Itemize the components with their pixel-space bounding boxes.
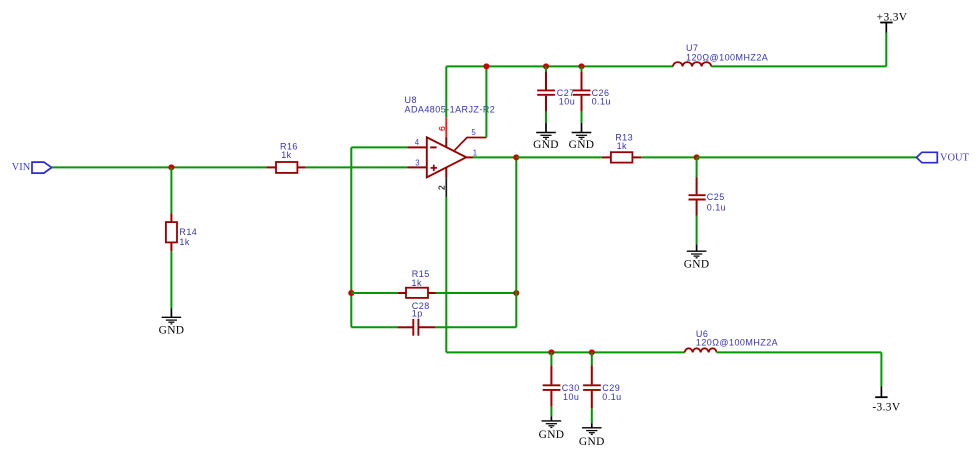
wire output junction to R13 xyxy=(516,156,602,158)
capacitor C26 xyxy=(573,66,591,123)
wire pin 5 to top rail xyxy=(485,66,487,137)
svg-text:0.1u: 0.1u xyxy=(602,392,621,402)
wire pin 6 from top rail xyxy=(445,66,447,117)
power symbol -3.3V xyxy=(875,386,887,397)
pin 1 stub xyxy=(466,156,473,158)
top supply rail wire (right) xyxy=(711,65,886,67)
svg-text:120Ω@100MHZ2A: 120Ω@100MHZ2A xyxy=(696,337,778,347)
svg-text:VIN: VIN xyxy=(12,162,31,173)
capacitor C27 xyxy=(537,66,555,123)
svg-text:4: 4 xyxy=(415,138,420,147)
junction dot R15 right xyxy=(513,290,519,296)
ground symbol (C27) xyxy=(536,123,556,139)
svg-text:GND: GND xyxy=(569,139,595,151)
resistor R14 xyxy=(166,213,177,251)
pin 5 stub xyxy=(455,138,487,151)
wire C28 right xyxy=(435,326,516,328)
svg-text:GND: GND xyxy=(684,259,710,271)
wire node A down to R14 xyxy=(170,167,172,213)
svg-text:0.1u: 0.1u xyxy=(592,97,611,107)
ground symbol (C30) xyxy=(542,416,562,427)
pin 2 stub (black) xyxy=(445,177,447,197)
svg-text:120Ω@100MHZ2A: 120Ω@100MHZ2A xyxy=(686,52,768,62)
capacitor C28 xyxy=(398,319,436,336)
svg-text:VOUT: VOUT xyxy=(940,153,970,164)
port VOUT xyxy=(917,152,938,162)
capacitor C25 xyxy=(689,157,706,244)
svg-text:2: 2 xyxy=(436,185,446,190)
ground symbol (C25) xyxy=(687,244,707,257)
wire R13 to C25 node xyxy=(641,156,696,158)
svg-text:GND: GND xyxy=(533,139,559,151)
junction dot pin5/top rail xyxy=(483,63,489,69)
junction dot output xyxy=(513,154,519,160)
wire left vertical to R15 xyxy=(351,292,397,294)
wire pin 1 to output junction xyxy=(473,156,516,158)
ground symbol (C29) xyxy=(582,423,602,434)
svg-text:1k: 1k xyxy=(412,278,422,288)
capacitor C29 xyxy=(583,352,601,423)
junction dot R15 left xyxy=(348,290,354,296)
wire C25 node to VOUT xyxy=(697,156,917,158)
svg-text:0.1u: 0.1u xyxy=(707,203,726,213)
right feedback vertical wire xyxy=(515,157,517,327)
svg-text:1k: 1k xyxy=(281,150,291,160)
ground symbol (C26) xyxy=(572,123,592,139)
wire VIN to node A xyxy=(52,166,172,168)
svg-text:1k: 1k xyxy=(617,141,627,151)
feedback left vertical wire xyxy=(350,147,352,327)
negative rail wire (left) xyxy=(446,351,684,353)
junction dot C25 node xyxy=(694,154,700,160)
capacitor C30 xyxy=(543,352,561,416)
svg-text:1k: 1k xyxy=(179,237,189,247)
svg-text:10u: 10u xyxy=(559,97,575,107)
svg-text:U8: U8 xyxy=(405,95,417,105)
wire node A to R16 xyxy=(171,166,266,168)
junction dot C26 xyxy=(578,63,584,69)
svg-text:+3.3V: +3.3V xyxy=(877,11,908,23)
power symbol +3.3V xyxy=(880,23,892,33)
top supply rail wire (left) xyxy=(446,65,673,67)
wire R14 to ground xyxy=(170,251,172,308)
wire R15 to right vertical xyxy=(436,292,517,294)
wire C28 left xyxy=(351,326,397,328)
wire down to -3.3V xyxy=(880,352,882,386)
svg-text:1p: 1p xyxy=(412,309,423,319)
pin 3 stub xyxy=(407,166,426,168)
inductor U6 xyxy=(685,348,717,352)
svg-text:ADA4805-1ARJZ-R2: ADA4805-1ARJZ-R2 xyxy=(405,105,496,115)
ground symbol (R14) xyxy=(162,308,182,324)
svg-text:-3.3V: -3.3V xyxy=(872,402,900,414)
wire pin 4 to feedback vertical xyxy=(351,146,407,148)
resistor R13 xyxy=(602,152,642,162)
svg-text:5: 5 xyxy=(471,128,476,137)
wire up to +3.3V xyxy=(885,33,887,67)
negative rail wire (right) xyxy=(717,351,882,353)
svg-text:C25: C25 xyxy=(707,192,725,202)
junction dot C30 xyxy=(548,349,554,355)
op-amp U8 xyxy=(427,137,466,177)
svg-text:6: 6 xyxy=(437,126,447,131)
resistor R16 xyxy=(267,162,306,173)
svg-text:GND: GND xyxy=(159,324,185,336)
inductor U7 xyxy=(673,62,711,66)
junction dot C27 xyxy=(543,63,549,69)
wire pin 2 to negative rail xyxy=(445,197,447,352)
svg-text:1: 1 xyxy=(473,149,477,158)
svg-text:GND: GND xyxy=(539,429,565,441)
svg-text:R14: R14 xyxy=(179,227,197,237)
pin 2 stub (maroon) xyxy=(445,167,447,177)
node A junction dot xyxy=(168,164,174,170)
pin 6 stub (bright red) xyxy=(445,118,447,137)
svg-text:3: 3 xyxy=(415,159,419,168)
port VIN xyxy=(32,162,52,173)
svg-text:GND: GND xyxy=(579,436,605,448)
wire R16 to op-amp pin 3 xyxy=(306,166,408,168)
svg-text:10u: 10u xyxy=(563,392,579,402)
pin 4 stub xyxy=(407,146,426,148)
pin 6 stub (maroon) xyxy=(445,137,447,147)
resistor R15 xyxy=(398,288,436,298)
junction dot C29 xyxy=(589,349,595,355)
